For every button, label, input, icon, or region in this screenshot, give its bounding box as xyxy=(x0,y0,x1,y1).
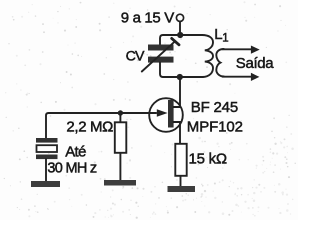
svg-text:Saída: Saída xyxy=(236,55,274,72)
svg-text:BF 245: BF 245 xyxy=(191,99,238,116)
ground under crystal xyxy=(31,181,60,187)
svg-text:MPF102: MPF102 xyxy=(187,119,243,136)
output wire bottom with arrow xyxy=(223,76,252,78)
wire CV bottom to tank bottom rail xyxy=(160,63,163,78)
crystal XTAL top plate xyxy=(36,138,58,143)
inductor L1 secondary winding xyxy=(216,49,224,77)
wire stub to resistor 2,2 MΩ xyxy=(119,113,121,122)
svg-text:9 a 15 V: 9 a 15 V xyxy=(121,10,174,27)
svg-text:1: 1 xyxy=(222,33,228,45)
svg-text:2,2 MΩ: 2,2 MΩ xyxy=(66,119,113,136)
svg-text:30 MH z: 30 MH z xyxy=(47,161,97,177)
capacitor CV bottom plate xyxy=(148,57,174,63)
transistor drain lead xyxy=(174,106,180,108)
wire crystal to ground xyxy=(45,159,47,182)
gate wire from crystal node xyxy=(46,113,156,138)
crystal XTAL body xyxy=(37,145,58,152)
svg-text:15 kΩ: 15 kΩ xyxy=(189,150,227,167)
transistor BF245/MPF102 circle xyxy=(149,98,183,132)
wire resistor 15 kΩ to ground xyxy=(180,176,182,187)
inductor L1 primary winding xyxy=(202,35,213,77)
junction dot bottom rail xyxy=(177,74,183,80)
transistor source lead xyxy=(174,122,180,144)
transistor gate lead with arrow xyxy=(122,112,156,114)
capacitor CV trimmer arrow xyxy=(142,42,175,72)
supply terminal circle xyxy=(176,14,183,21)
resistor 15 kΩ body xyxy=(175,144,186,176)
wire tank top rail xyxy=(160,35,203,45)
wire tank bottom rail xyxy=(163,76,203,78)
junction dot gate node xyxy=(118,110,123,115)
crystal XTAL bottom plate xyxy=(36,155,58,160)
output wire top with arrow xyxy=(223,48,252,50)
transistor channel bar xyxy=(168,100,174,128)
svg-text:Até: Até xyxy=(65,144,86,161)
wire resistor 2,2 MΩ to ground xyxy=(119,153,121,181)
ground under 2,2 MΩ resistor xyxy=(104,180,136,186)
resistor 2,2 MΩ body xyxy=(115,122,127,153)
junction dot top rail xyxy=(177,32,183,38)
capacitor CV top plate xyxy=(148,45,174,51)
ground under 15 kΩ resistor xyxy=(168,186,196,192)
svg-text:CV: CV xyxy=(126,48,145,64)
wire terminal to tank top rail xyxy=(179,21,181,35)
wire drain to tank xyxy=(179,77,181,107)
